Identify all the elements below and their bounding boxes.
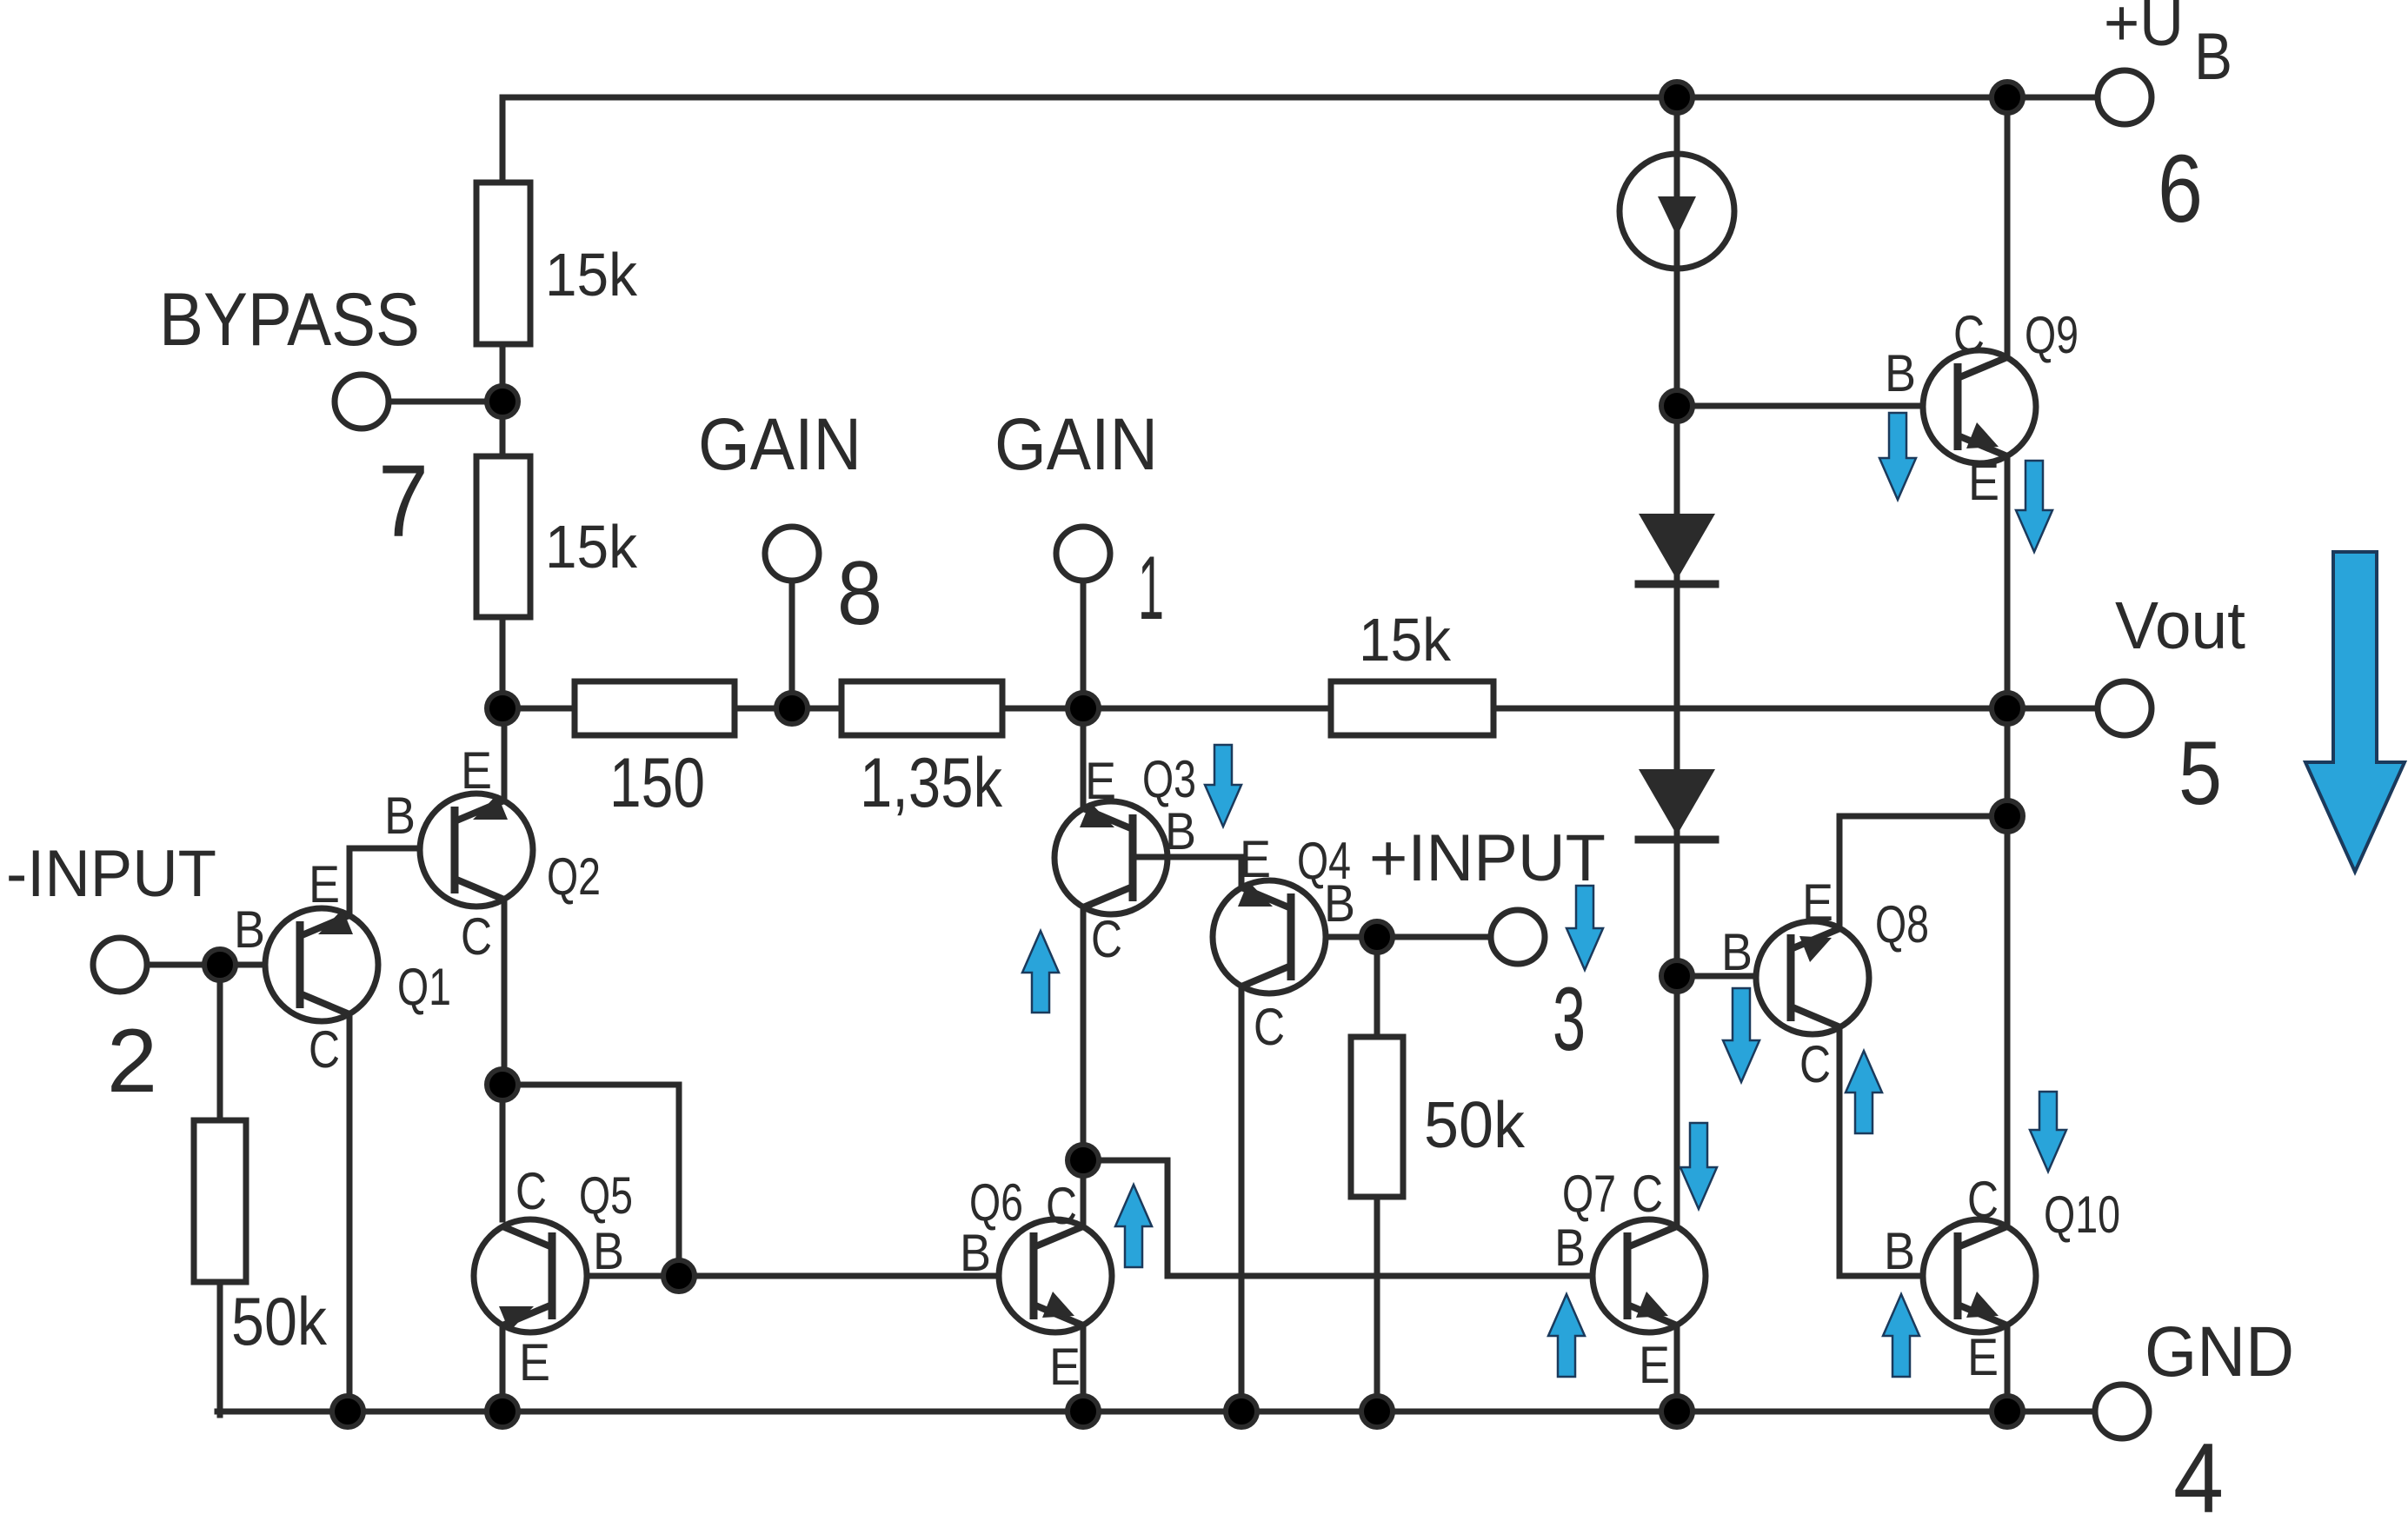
wire Q3 base to Q4 emitter (1133, 854, 1241, 860)
wire Q6 emitter down (1081, 1325, 1087, 1411)
wire Q2 collector down (502, 900, 508, 1088)
current arrow right of Q10 collector (2030, 1092, 2066, 1172)
resistor R7 50k (vertical) (1351, 1037, 1403, 1197)
svg-text:Q7: Q7 (1562, 1165, 1616, 1223)
wire down to Q7 base row (1165, 1160, 1171, 1276)
current arrow below Q7 base (1548, 1294, 1585, 1377)
svg-text:E: E (519, 1333, 550, 1391)
label Vout (2115, 588, 2245, 663)
current arrow right of Q8 (1846, 1051, 1882, 1133)
label Q9 E (1968, 453, 1999, 511)
svg-text:E: E (1085, 752, 1116, 810)
label Q7 (1562, 1165, 1616, 1223)
terminal 7 BYPASS (335, 375, 389, 428)
label Q1 (397, 958, 451, 1016)
label Q3 B (1165, 802, 1196, 860)
current arrow below Q10 base (1883, 1294, 1919, 1377)
wire Q1 collector down to ground (347, 1014, 353, 1411)
node GAIN 8 junction (776, 693, 808, 724)
terminal 6 +UB (2098, 70, 2152, 124)
svg-text:Q10: Q10 (2044, 1186, 2120, 1244)
label pin 3 (1553, 969, 1586, 1070)
node Q9 base junction (1661, 390, 1693, 422)
svg-text:+INPUT: +INPUT (1369, 821, 1606, 895)
label Q3 (1142, 750, 1196, 808)
wire Q10 emitter to ground (2005, 1325, 2011, 1411)
label R4 value 1,35k (860, 744, 1002, 822)
label R7 value 50k (1424, 1088, 1525, 1161)
svg-text:B: B (960, 1224, 991, 1282)
svg-text:E: E (1967, 1328, 1999, 1386)
wire Q2C node to Q5 collector (500, 1085, 506, 1219)
svg-text:15k: 15k (545, 513, 638, 581)
svg-text:C: C (1967, 1171, 1999, 1229)
wire R3 to gain8 node (735, 706, 845, 712)
wire top supply rail (502, 95, 2098, 101)
wire mid row: node to R3 (502, 706, 578, 712)
resistor R6 50k (vertical) (194, 1120, 246, 1282)
svg-text:E: E (1639, 1336, 1670, 1394)
node +INPUT junction (1361, 921, 1393, 953)
resistor R4 1,35k (horizontal) (841, 681, 1002, 735)
wire Q4 base to +INPUT (1291, 934, 1493, 940)
wire GAIN8 terminal drop (789, 578, 795, 708)
svg-text:B: B (384, 787, 416, 845)
node Q3 collector junction (1068, 1145, 1099, 1176)
svg-text:B: B (1324, 874, 1355, 933)
label Q8 (1875, 895, 1929, 953)
label Q2 E (461, 741, 492, 800)
wire Q9 collector to rail (2005, 97, 2011, 357)
wire -INPUT node down to R6 (217, 965, 223, 1124)
resistor R3 150 (horizontal) (575, 681, 735, 735)
wire Q5 emitter to ground (500, 1325, 506, 1411)
terminal 4 GND (2095, 1385, 2149, 1438)
wire Q8 base (1677, 973, 1791, 980)
svg-text:C: C (1799, 1035, 1831, 1093)
terminal 8 GAIN (765, 527, 819, 581)
svg-text:150: 150 (609, 744, 705, 822)
label Q10 B (1884, 1222, 1915, 1280)
svg-text:-INPUT: -INPUT (6, 837, 216, 911)
svg-text:7: 7 (378, 444, 429, 559)
node gnd Q7 (1661, 1396, 1693, 1427)
label Q7 C (1632, 1165, 1663, 1223)
transistor Q10 (1923, 1219, 2036, 1332)
svg-text:B: B (1885, 344, 1916, 402)
label Q6 E (1049, 1338, 1081, 1396)
label Q2 C (461, 907, 492, 966)
terminal 1 GAIN (1056, 527, 1110, 581)
svg-text:B: B (234, 900, 265, 959)
label Q8 C (1799, 1035, 1831, 1093)
node right column mid junction (1992, 800, 2023, 832)
wire Q8 collector down (1837, 1027, 1843, 1276)
node Q5 base junction (663, 1260, 695, 1292)
label pin 6 (2158, 136, 2203, 242)
wire Q3 emitter up to mid row (1081, 708, 1087, 808)
transistor Q8 (1756, 921, 1869, 1034)
svg-text:C: C (1953, 305, 1985, 363)
output current arrow (Vout) (2305, 552, 2405, 872)
label +UB (2104, 0, 2232, 94)
label pin 8 (837, 543, 882, 644)
diode D2 (1639, 769, 1715, 840)
current arrow left of Q3 collector (1022, 931, 1059, 1013)
resistor R1 15k (vertical) (476, 183, 530, 344)
label Q7 B (1554, 1219, 1586, 1277)
svg-text:C: C (1091, 910, 1122, 968)
svg-text:B: B (1554, 1219, 1586, 1277)
svg-text:C: C (1046, 1177, 1077, 1235)
svg-text:B: B (593, 1222, 624, 1280)
node GAIN 1 junction (1068, 693, 1099, 724)
svg-text:1,35k: 1,35k (860, 744, 1002, 822)
current arrow right of Q3 (1205, 745, 1241, 827)
label Q9 (2025, 306, 2079, 364)
svg-text:GAIN: GAIN (698, 403, 861, 485)
label Q5 E (519, 1333, 550, 1391)
transistor Q3 (1054, 801, 1167, 914)
wire mid row right to Vout (1493, 706, 2098, 712)
label Q4 C (1254, 998, 1285, 1056)
svg-text:Q1: Q1 (397, 958, 451, 1016)
wire Q8 emitter drop (1837, 816, 1843, 928)
svg-text:6: 6 (2158, 136, 2203, 242)
node gnd Q1 (332, 1396, 363, 1427)
svg-text:5: 5 (2179, 723, 2222, 824)
svg-text:GND: GND (2145, 1312, 2294, 1391)
svg-text:3: 3 (1553, 969, 1586, 1070)
svg-text:C: C (1632, 1165, 1663, 1223)
label +INPUT (1369, 821, 1606, 895)
node Q8 base junction (1661, 960, 1693, 992)
label -INPUT (6, 837, 216, 911)
svg-text:Q8: Q8 (1875, 895, 1929, 953)
wire Q2C node right (502, 1082, 679, 1088)
label Q10 E (1967, 1328, 1999, 1386)
terminal 2 -INPUT (93, 938, 147, 992)
svg-text:BYPASS: BYPASS (159, 278, 420, 362)
wire R2 bottom to mid row (500, 617, 506, 708)
svg-text:B: B (1884, 1222, 1915, 1280)
label R2 value 15k (545, 513, 638, 581)
node BYPASS junction (487, 386, 518, 417)
svg-text:2: 2 (107, 1011, 157, 1112)
svg-text:15k: 15k (1359, 606, 1452, 674)
wire Q2 emitter up to mid row (502, 708, 508, 800)
svg-text:C: C (1254, 998, 1285, 1056)
current arrow near Q9 emitter (2016, 461, 2052, 552)
wire +INPUT node down to R7 (1374, 937, 1380, 1040)
node -INPUT junction (204, 949, 236, 980)
label pin 1 (1138, 538, 1164, 639)
label Q6 B (960, 1224, 991, 1282)
svg-text:8: 8 (837, 543, 882, 644)
label pin 2 (107, 1011, 157, 1112)
wire R4 to 15k resistor (1002, 706, 1334, 712)
current source CS1 (1620, 154, 1734, 269)
svg-text:15k: 15k (545, 241, 638, 309)
transistor Q1 (265, 908, 378, 1021)
label Q5 C (516, 1162, 547, 1220)
svg-text:C: C (516, 1162, 547, 1220)
terminal 5 Vout (2098, 681, 2152, 735)
node gnd Q10 (1992, 1396, 2023, 1427)
label GAIN (pin1) (994, 403, 1158, 485)
svg-text:C: C (461, 907, 492, 966)
terminal 3 +INPUT (1491, 910, 1545, 964)
label Q4 B (1324, 874, 1355, 933)
transistor Q9 (1923, 350, 2036, 463)
wire Q4 collector down to ground (1239, 986, 1245, 1411)
wire R6 bottom to ground row (217, 1282, 223, 1415)
label Q6 C (1046, 1177, 1077, 1235)
resistor R2 15k (vertical) (476, 456, 530, 617)
label Q10 C (1967, 1171, 1999, 1229)
label Q8 E (1802, 873, 1833, 932)
label R5 value 15k (1359, 606, 1452, 674)
svg-text:E: E (309, 855, 340, 913)
svg-text:50k: 50k (231, 1283, 328, 1359)
current arrow right of Q6 (1115, 1185, 1152, 1267)
transistor Q4 (1213, 880, 1326, 993)
diode D1 (1639, 514, 1715, 584)
wire Q1 emitter to Q2 base (349, 846, 455, 852)
wire Q7 emitter to ground (1674, 1325, 1680, 1411)
wire left column from rail to R1 (500, 97, 506, 186)
label Q2 B (384, 787, 416, 845)
wire Q6 collector up (1081, 1160, 1087, 1226)
svg-text:E: E (1968, 453, 1999, 511)
wire right column (Q9 E to Q10 C) (2005, 456, 2011, 1226)
label pin 4 (2173, 1424, 2224, 1521)
node gnd Q4 (1226, 1396, 1257, 1427)
resistor R5 15k (horizontal) (1331, 681, 1493, 735)
label Q1 C (309, 1020, 340, 1079)
wire R7 bottom to ground (1374, 1197, 1380, 1411)
label pin 7 (378, 444, 429, 559)
node rail bias junction (1661, 82, 1693, 113)
wire Q8 collector to Q10 base (1839, 1273, 1958, 1279)
label R3 value 150 (609, 744, 705, 822)
node gnd R7 (1361, 1396, 1393, 1427)
svg-text:B: B (1165, 802, 1196, 860)
label Q5 B (593, 1222, 624, 1280)
wire Q3 collector down (1081, 907, 1087, 1164)
wire GAIN1 terminal drop (1081, 578, 1087, 708)
wire Q3C node right (1083, 1158, 1167, 1164)
current arrow near Q9 base (1879, 413, 1916, 500)
svg-text:+U: +U (2104, 0, 2184, 60)
label Q4 (1297, 832, 1351, 890)
svg-text:Q6: Q6 (969, 1173, 1023, 1232)
wire R1 bottom to BYPASS node (500, 344, 506, 460)
label Q9 B (1885, 344, 1916, 402)
label Q8 B (1721, 923, 1753, 981)
wire down to Q5 base node (676, 1085, 682, 1276)
transistor Q5 (474, 1219, 587, 1332)
label GAIN (pin8) (698, 403, 861, 485)
label Q2 (547, 847, 601, 906)
label GND (2145, 1312, 2294, 1391)
label Q3 E (1085, 752, 1116, 810)
label Q7 E (1639, 1336, 1670, 1394)
label Q6 (969, 1173, 1023, 1232)
label Q1 B (234, 900, 265, 959)
wire BYPASS terminal stub (389, 399, 502, 405)
svg-text:E: E (461, 741, 492, 800)
label Q1 E (309, 855, 340, 913)
svg-text:4: 4 (2173, 1424, 2224, 1521)
label BYPASS (159, 278, 420, 362)
label R6 value 50k (231, 1283, 328, 1359)
wire Q7 base row (1167, 1273, 1628, 1279)
label Q10 (2044, 1186, 2120, 1244)
svg-text:Q3: Q3 (1142, 750, 1196, 808)
transistor Q7 (1593, 1219, 1706, 1332)
node Q2 collector junction (487, 1069, 518, 1100)
transistor Q2 (420, 794, 533, 907)
node gnd Q6 (1068, 1396, 1099, 1427)
wire Vout node to Q8 emitter (1839, 814, 2007, 820)
label Q4 E (1240, 830, 1271, 888)
label R1 value 15k (545, 241, 638, 309)
node mid row left (487, 693, 518, 724)
wire ground row (217, 1409, 2095, 1415)
svg-text:C: C (309, 1020, 340, 1079)
transistor Q6 (999, 1219, 1112, 1332)
svg-text:B: B (1721, 923, 1753, 981)
label Q9 C (1953, 305, 1985, 363)
svg-text:Q9: Q9 (2025, 306, 2079, 364)
svg-text:E: E (1049, 1338, 1081, 1396)
svg-text:Q2: Q2 (547, 847, 601, 906)
node gnd Q5 (487, 1396, 518, 1427)
label pin 5 (2179, 723, 2222, 824)
current arrow near +INPUT (1567, 886, 1603, 970)
svg-text:50k: 50k (1424, 1088, 1525, 1161)
svg-text:GAIN: GAIN (994, 403, 1158, 485)
wire Q9 base (1677, 403, 1958, 409)
svg-text:B: B (2194, 20, 2232, 94)
svg-text:E: E (1240, 830, 1271, 888)
label Q5 (579, 1166, 633, 1225)
wire -INPUT to Q1 base (147, 962, 301, 968)
node Vout junction (1992, 693, 2023, 724)
wire Q1 emitter up (347, 848, 353, 915)
current arrow above Q7 (1680, 1123, 1717, 1209)
svg-text:Q5: Q5 (579, 1166, 633, 1225)
node rail right junction (1992, 82, 2023, 113)
wire Q4 emitter drop (1239, 857, 1245, 887)
wire Q5 base row (552, 1273, 1034, 1279)
svg-text:E: E (1802, 873, 1833, 932)
svg-text:Vout: Vout (2115, 588, 2245, 663)
wire bias column (1674, 97, 1680, 1226)
svg-text:1: 1 (1138, 538, 1164, 639)
current arrow below Q8 base (1723, 988, 1759, 1082)
label Q3 C (1091, 910, 1122, 968)
